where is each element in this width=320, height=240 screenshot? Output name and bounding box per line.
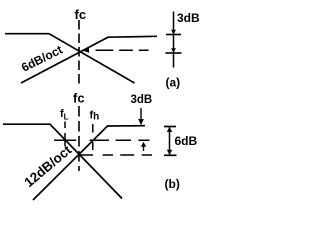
dashed horizontal -3dB line with left arrow (a) [96, 49, 149, 51]
arrowhead down (b) [167, 150, 172, 155]
dimension tick bar upper (a) [166, 34, 181, 36]
dashed vertical line fL (b) [64, 122, 66, 148]
svg-text:fh: fh [90, 110, 100, 123]
wire left response line (b): flat then -12dB/oct slope [3, 124, 122, 198]
svg-text:fc: fc [75, 7, 87, 22]
small arrow pointing up to -3dB line (b) [143, 146, 145, 152]
wire right response line (b): +12dB/oct slope then flat [33, 126, 145, 200]
dashed horizontal -3dB line (b) [54, 139, 150, 141]
dimension tick bar top (b) [164, 126, 176, 128]
arrowhead lower (a) [171, 48, 176, 52]
dashed vertical line fc (b) [78, 106, 80, 171]
dashed horizontal -6dB line (b) [80, 154, 152, 156]
svg-text:3dB: 3dB [131, 94, 153, 106]
wire right response line (a): +6dB/oct slope then flat [21, 36, 157, 83]
dimension indicator 6dB (b): vertical line [169, 127, 171, 156]
svg-text:(a): (a) [166, 76, 181, 90]
svg-text:3dB: 3dB [177, 11, 200, 25]
svg-text:6dB: 6dB [175, 134, 198, 148]
arrowhead upper (a) [171, 30, 176, 34]
svg-text:(b): (b) [165, 177, 180, 191]
dimension tick bar bottom (b) [164, 154, 177, 156]
arrowhead up (b) [167, 127, 172, 132]
arrow 3dB pointing down to passband top (b) [140, 108, 142, 121]
svg-text:fc: fc [73, 91, 85, 106]
dashed vertical line fc (a) [78, 20, 80, 86]
dimension tick bar lower (a) [166, 52, 182, 54]
dimension indicator 3dB (a): vertical line [173, 12, 175, 68]
dashed vertical line fh (b) [92, 124, 94, 150]
wire left response line (a): flat then -6dB/oct slope [5, 34, 135, 83]
